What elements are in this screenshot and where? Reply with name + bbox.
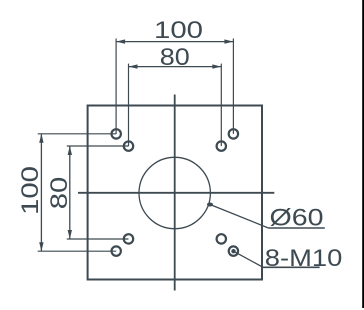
leader dot on bottom-right outer hole (8-M10)	[231, 249, 235, 253]
hole inner top-left	[124, 141, 133, 150]
dimension 100 top: dim line	[116, 41, 233, 43]
8-M10 label underline	[263, 266, 320, 268]
horizontal center line	[78, 192, 274, 194]
hole outer top-right	[229, 129, 238, 138]
dimension 100 left: bottom extension line	[38, 250, 117, 252]
dimension 80 left: bottom extension line	[67, 238, 129, 240]
dimension 100 top: left extension line	[115, 39, 117, 134]
dimension 80 left: bottom arrow	[68, 230, 72, 239]
hole inner top-right	[217, 141, 226, 150]
dimension 100 left: top extension line	[38, 133, 117, 135]
dimension 100 left: bottom arrow	[39, 242, 43, 251]
dimension 100 top: right extension line	[232, 39, 234, 134]
dimension 80 top: dim line	[129, 66, 222, 68]
svg-text:100: 100	[17, 166, 44, 215]
plate outline (square flange)	[88, 106, 262, 280]
leader line to 8-M10 label	[234, 251, 264, 267]
hole outer bottom-right	[229, 246, 238, 255]
black border line at right edge of screenshot	[362, 0, 364, 308]
dimension 80 top: left arrow	[129, 64, 138, 68]
dimension 100 top: right arrow	[224, 39, 233, 43]
D60 label underline	[268, 227, 324, 229]
dimension 80 top: right extension line	[220, 64, 222, 147]
svg-text:80: 80	[160, 44, 190, 71]
vertical center line	[174, 95, 176, 291]
dimension 80 left: top extension line	[67, 145, 129, 147]
dimension 80 left: dim line	[69, 146, 71, 239]
svg-text:100: 100	[154, 17, 203, 44]
hole outer bottom-left	[112, 246, 121, 255]
leader line to D60 label	[210, 205, 268, 229]
svg-text:8-M10: 8-M10	[265, 245, 343, 272]
dimension 100 left: dim line	[40, 134, 42, 251]
hole inner bottom-left	[124, 234, 133, 243]
dimension 80 top: right arrow	[212, 64, 221, 68]
center circle D60	[139, 157, 210, 228]
svg-text:Ø60: Ø60	[270, 204, 324, 231]
hole inner bottom-right	[217, 234, 226, 243]
dimension 100 top: left arrow	[116, 39, 125, 43]
dimension 80 left: top arrow	[68, 146, 72, 155]
hole outer top-left	[112, 129, 121, 138]
dimension 100 left: top arrow	[39, 134, 43, 143]
svg-text:80: 80	[46, 177, 73, 210]
leader dot on circle (D60)	[207, 203, 213, 207]
dimension 80 top: left extension line	[128, 64, 130, 147]
